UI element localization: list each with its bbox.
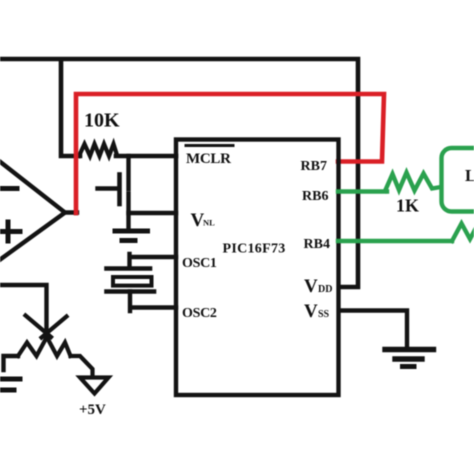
- LED1 box (green rounded): [442, 148, 474, 212]
- wire Vss pin (left) to capacitor/ground node: [129, 211, 177, 215]
- wire red op-amp output to RB7: [76, 94, 384, 213]
- svg-text:V: V: [304, 276, 318, 297]
- ground (bottom left): [0, 377, 20, 382]
- svg-text:10K: 10K: [84, 110, 120, 132]
- wire VSS to ground right: [340, 311, 407, 348]
- wire feedback top (op-amp inverting loop to VDD rail): [0, 59, 358, 287]
- svg-text:+5V: +5V: [79, 402, 106, 418]
- potentiometer wiper arrow: [26, 316, 67, 338]
- svg-text:RB7: RB7: [301, 159, 327, 174]
- potentiometer right lead: [71, 356, 93, 377]
- op-amp output stub: [65, 210, 77, 215]
- svg-text:RB4: RB4: [304, 237, 330, 252]
- svg-text:1K: 1K: [396, 196, 419, 216]
- wire vertical drop from top rail to 10K resistor: [61, 61, 80, 156]
- op-amp plus input sign: [0, 222, 20, 241]
- op-amp minus input sign: [0, 186, 17, 191]
- svg-text:OSC1: OSC1: [182, 256, 217, 271]
- crystal X1 bottom plate: [107, 289, 155, 294]
- label MCLR with overline: [186, 144, 233, 147]
- wire green RB4: [338, 239, 452, 243]
- op-amp U1 triangle: [0, 150, 65, 271]
- crystal X1 body: [113, 277, 152, 286]
- potentiometer left lead: [4, 356, 19, 370]
- svg-text:V: V: [304, 301, 318, 322]
- wire resistor to MCLR pin: [116, 154, 176, 159]
- wire OSC1: [130, 254, 177, 268]
- ground (right of chip): [385, 347, 434, 352]
- wire green RB6 to 1K resistor: [338, 189, 387, 193]
- svg-text:PIC16F73: PIC16F73: [223, 242, 286, 257]
- wire capacitor to ground: [126, 194, 130, 232]
- +5V supply arrow (open triangle): [80, 378, 109, 394]
- resistor R3 zigzag (clipped at edge): [452, 224, 474, 242]
- svg-text:DD: DD: [318, 284, 332, 295]
- wire junction down to capacitor: [126, 156, 130, 189]
- ground (below capacitor): [115, 229, 148, 234]
- capacitor C1 plate (T-bar): [117, 175, 122, 205]
- svg-text:LED: LED: [465, 166, 474, 185]
- wire op-amp noninverting to potentiometer wiper: [0, 285, 47, 331]
- svg-text:SS: SS: [318, 309, 330, 320]
- capacitor C1 lead: [98, 186, 119, 190]
- svg-text:RB6: RB6: [302, 189, 328, 204]
- svg-text:OSC2: OSC2: [182, 306, 217, 321]
- svg-text:MCLR: MCLR: [186, 151, 231, 167]
- PIC16F73 chip U2 body: [176, 140, 339, 396]
- wire OSC2: [130, 292, 176, 312]
- svg-text:NL: NL: [203, 218, 215, 228]
- potentiometer RV1 zigzag: [18, 337, 71, 356]
- resistor R1 10K zigzag: [79, 144, 117, 156]
- crystal X1 top plate: [107, 266, 151, 271]
- resistor R2 1K zigzag: [385, 173, 441, 192]
